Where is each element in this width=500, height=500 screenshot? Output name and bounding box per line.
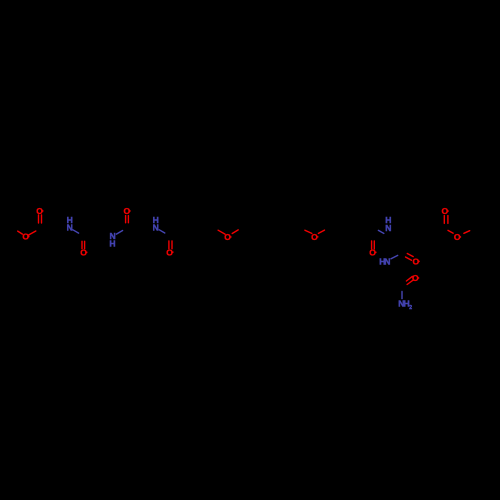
wire C18-N18 blue half	[401, 292, 403, 299]
wire O1'-CH2 red half	[232, 230, 238, 234]
wire C12=O12 double bond red half	[371, 241, 373, 249]
wire N10-C11 blue half	[159, 230, 165, 233]
svg-text:N: N	[153, 223, 159, 233]
wire N7-C6 blue half	[116, 231, 122, 235]
wire O2'-CH2 red half	[318, 230, 324, 233]
decorative O-glyph nubs omitted from labeling: part of atom glyph rendering	[28, 210, 461, 279]
svg-text:H: H	[109, 238, 115, 248]
wire C17''-O20 red half	[448, 230, 453, 233]
wire CH2-O1' red half	[218, 230, 225, 234]
wire O20-CH3 red half	[464, 231, 470, 234]
svg-text:N: N	[67, 222, 73, 232]
svg-text:2: 2	[409, 305, 412, 311]
wire N15'-C16 blue half	[391, 255, 398, 258]
wire C5=O5 double bond red half	[81, 241, 83, 248]
svg-text:N: N	[384, 257, 390, 267]
wire CH3-O3 red half	[18, 231, 23, 234]
wire C17''=O19 double bond red half	[443, 216, 445, 224]
wire CH2-O2' red half	[305, 230, 312, 233]
wire C16=O16 double bond red half	[407, 254, 413, 257]
wire O3-C2 red half	[29, 231, 36, 235]
wire C6=O6 double bond red half	[125, 216, 127, 223]
wire C18=O17 double bond red half	[406, 276, 412, 281]
wire C11=O11 double bond red half	[168, 241, 170, 249]
wire N13-C12 blue half	[378, 230, 383, 233]
wire N4-C5 blue half	[73, 230, 79, 233]
wire C2=O1 double bond red half	[38, 215, 40, 223]
svg-text:N: N	[385, 223, 391, 233]
